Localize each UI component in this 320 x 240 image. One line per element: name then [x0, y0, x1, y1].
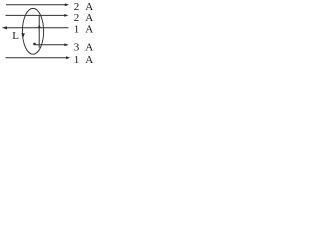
svg-text:2 A: 2 A: [74, 12, 95, 24]
svg-text:L: L: [12, 30, 19, 42]
arrowhead vertical wire (points up): [38, 25, 41, 28]
svg-text:1 A: 1 A: [74, 54, 95, 65]
vertical wire (runs up inside loop, joins wire 2): [38, 15, 40, 47]
wire 1 (top, current 2 A to the right): [6, 4, 65, 6]
arrowhead wire 1: [65, 3, 69, 6]
loop direction arrowhead (points down, on left edge of loop): [21, 33, 25, 37]
wire 3 (current 1 A to the left): [6, 27, 69, 29]
Amperian loop L (ellipse): [22, 8, 43, 54]
arrowhead wire 5: [66, 56, 70, 59]
wire 5 (bottom, current 1 A to the right): [6, 57, 67, 59]
wire 4 (current 3 A to the right): [35, 44, 65, 46]
arrowhead wire 3 (points left): [2, 26, 7, 29]
wire 2 (current 2 A to the right): [6, 14, 65, 16]
svg-text:3 A: 3 A: [74, 41, 95, 53]
svg-text:1 A: 1 A: [74, 24, 95, 36]
arrowhead wire 4: [64, 43, 68, 46]
arrowhead wire 2: [64, 14, 68, 17]
background: [0, 0, 99, 65]
junction dot (start of 3 A wire): [33, 43, 36, 46]
